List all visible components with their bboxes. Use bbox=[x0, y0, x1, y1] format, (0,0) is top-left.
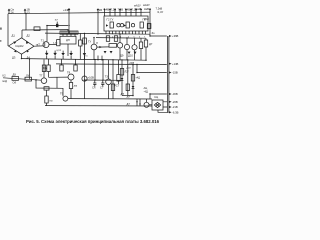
svg-text:по: по bbox=[50, 99, 53, 102]
svg-text:Сб: Сб bbox=[92, 86, 96, 90]
svg-text:Зо: Зо bbox=[152, 31, 156, 35]
svg-text:/1,4У: /1,4У bbox=[157, 10, 163, 14]
svg-text:Д2: Д2 bbox=[27, 34, 31, 38]
svg-text:ГУ: ГУ bbox=[88, 40, 91, 44]
svg-text:таТ: таТ bbox=[36, 43, 41, 47]
svg-text:7,4В: 7,4В bbox=[104, 8, 110, 12]
svg-text:Д9: Д9 bbox=[13, 73, 17, 77]
svg-text:ДП: ДП bbox=[66, 38, 70, 42]
svg-text:-21В: -21В bbox=[172, 105, 178, 109]
svg-text:+10В: +10В bbox=[88, 76, 95, 80]
svg-text:1мкВ: 1мкВ bbox=[135, 7, 142, 11]
svg-text:4,0З: 4,0З bbox=[53, 43, 58, 45]
svg-text:7,2кВ: 7,2кВ bbox=[156, 7, 163, 11]
svg-text:Д1: Д1 bbox=[12, 34, 16, 38]
svg-text:1З: 1З bbox=[27, 10, 30, 14]
svg-text:Л27: Л27 bbox=[125, 70, 130, 73]
svg-text:7,2В: 7,2В bbox=[111, 8, 117, 12]
svg-text:-15В: -15В bbox=[172, 71, 178, 75]
svg-text:мА2У: мА2У bbox=[143, 3, 150, 7]
svg-text:-36В: -36В bbox=[172, 92, 178, 96]
svg-text:Л7: Л7 bbox=[127, 95, 131, 99]
svg-text:Г7: Г7 bbox=[55, 18, 58, 22]
svg-text:Д3: Д3 bbox=[12, 56, 16, 60]
svg-text:Об: Об bbox=[13, 81, 17, 85]
svg-text:7,6В: 7,6В bbox=[118, 8, 124, 12]
svg-text:-6,3В: -6,3В bbox=[172, 110, 179, 114]
svg-text:Рис. 5. Схема электрическая пр: Рис. 5. Схема электрическая принципиальн… bbox=[26, 119, 160, 124]
svg-text:Л: Л bbox=[96, 41, 98, 45]
svg-text:7,1В: 7,1В bbox=[97, 8, 103, 12]
svg-text:Тв: Тв bbox=[85, 55, 88, 57]
svg-text:ТЗ: ТЗ bbox=[105, 74, 109, 78]
svg-text:Дсл: Дсл bbox=[127, 67, 132, 70]
svg-text:Т7: Т7 bbox=[39, 74, 43, 78]
svg-text:+24В: +24В bbox=[63, 8, 70, 12]
svg-text:Д10: Д10 bbox=[128, 53, 133, 57]
svg-text:НкВ: НкВ bbox=[144, 7, 149, 11]
svg-text:Г2 ГУ: Г2 ГУ bbox=[107, 18, 114, 22]
svg-text:Т9: Т9 bbox=[60, 91, 64, 95]
svg-text:15Л: 15Л bbox=[144, 17, 149, 21]
svg-text:К2: К2 bbox=[3, 73, 7, 77]
svg-text:КЦ: КЦ bbox=[155, 95, 159, 99]
svg-text:ДТ: ДТ bbox=[121, 92, 125, 96]
svg-text:Д7: Д7 bbox=[149, 42, 153, 46]
svg-text:мА2У: мА2У bbox=[134, 3, 141, 7]
svg-text:ЦПЛ: ЦПЛ bbox=[57, 50, 62, 52]
svg-text:+13В: +13В bbox=[172, 62, 179, 66]
svg-text:24: 24 bbox=[11, 10, 14, 14]
svg-text:Д4: Д4 bbox=[27, 56, 31, 60]
svg-text:-26В: -26В bbox=[172, 100, 178, 104]
svg-text:7,4В: 7,4В bbox=[125, 8, 131, 12]
svg-text:С7: С7 bbox=[100, 86, 104, 90]
svg-text:КЦ402: КЦ402 bbox=[16, 44, 25, 48]
svg-text:+4Д: +4Д bbox=[136, 77, 141, 80]
svg-text:ЛТ: ЛТ bbox=[74, 84, 78, 88]
svg-text:Д7: Д7 bbox=[127, 102, 131, 106]
svg-text:+36В: +36В bbox=[172, 34, 179, 38]
svg-text:Т1: Т1 bbox=[41, 39, 45, 43]
svg-text:Д9: Д9 bbox=[120, 53, 124, 57]
svg-text:ЛУ: ЛУ bbox=[26, 73, 30, 77]
svg-text:Т8: Т8 bbox=[67, 70, 71, 74]
svg-text:-4Д: -4Д bbox=[144, 89, 148, 93]
svg-text:-24В: -24В bbox=[129, 61, 135, 65]
svg-text:РСТ: РСТ bbox=[114, 83, 120, 87]
svg-text:поД: поД bbox=[2, 79, 7, 83]
